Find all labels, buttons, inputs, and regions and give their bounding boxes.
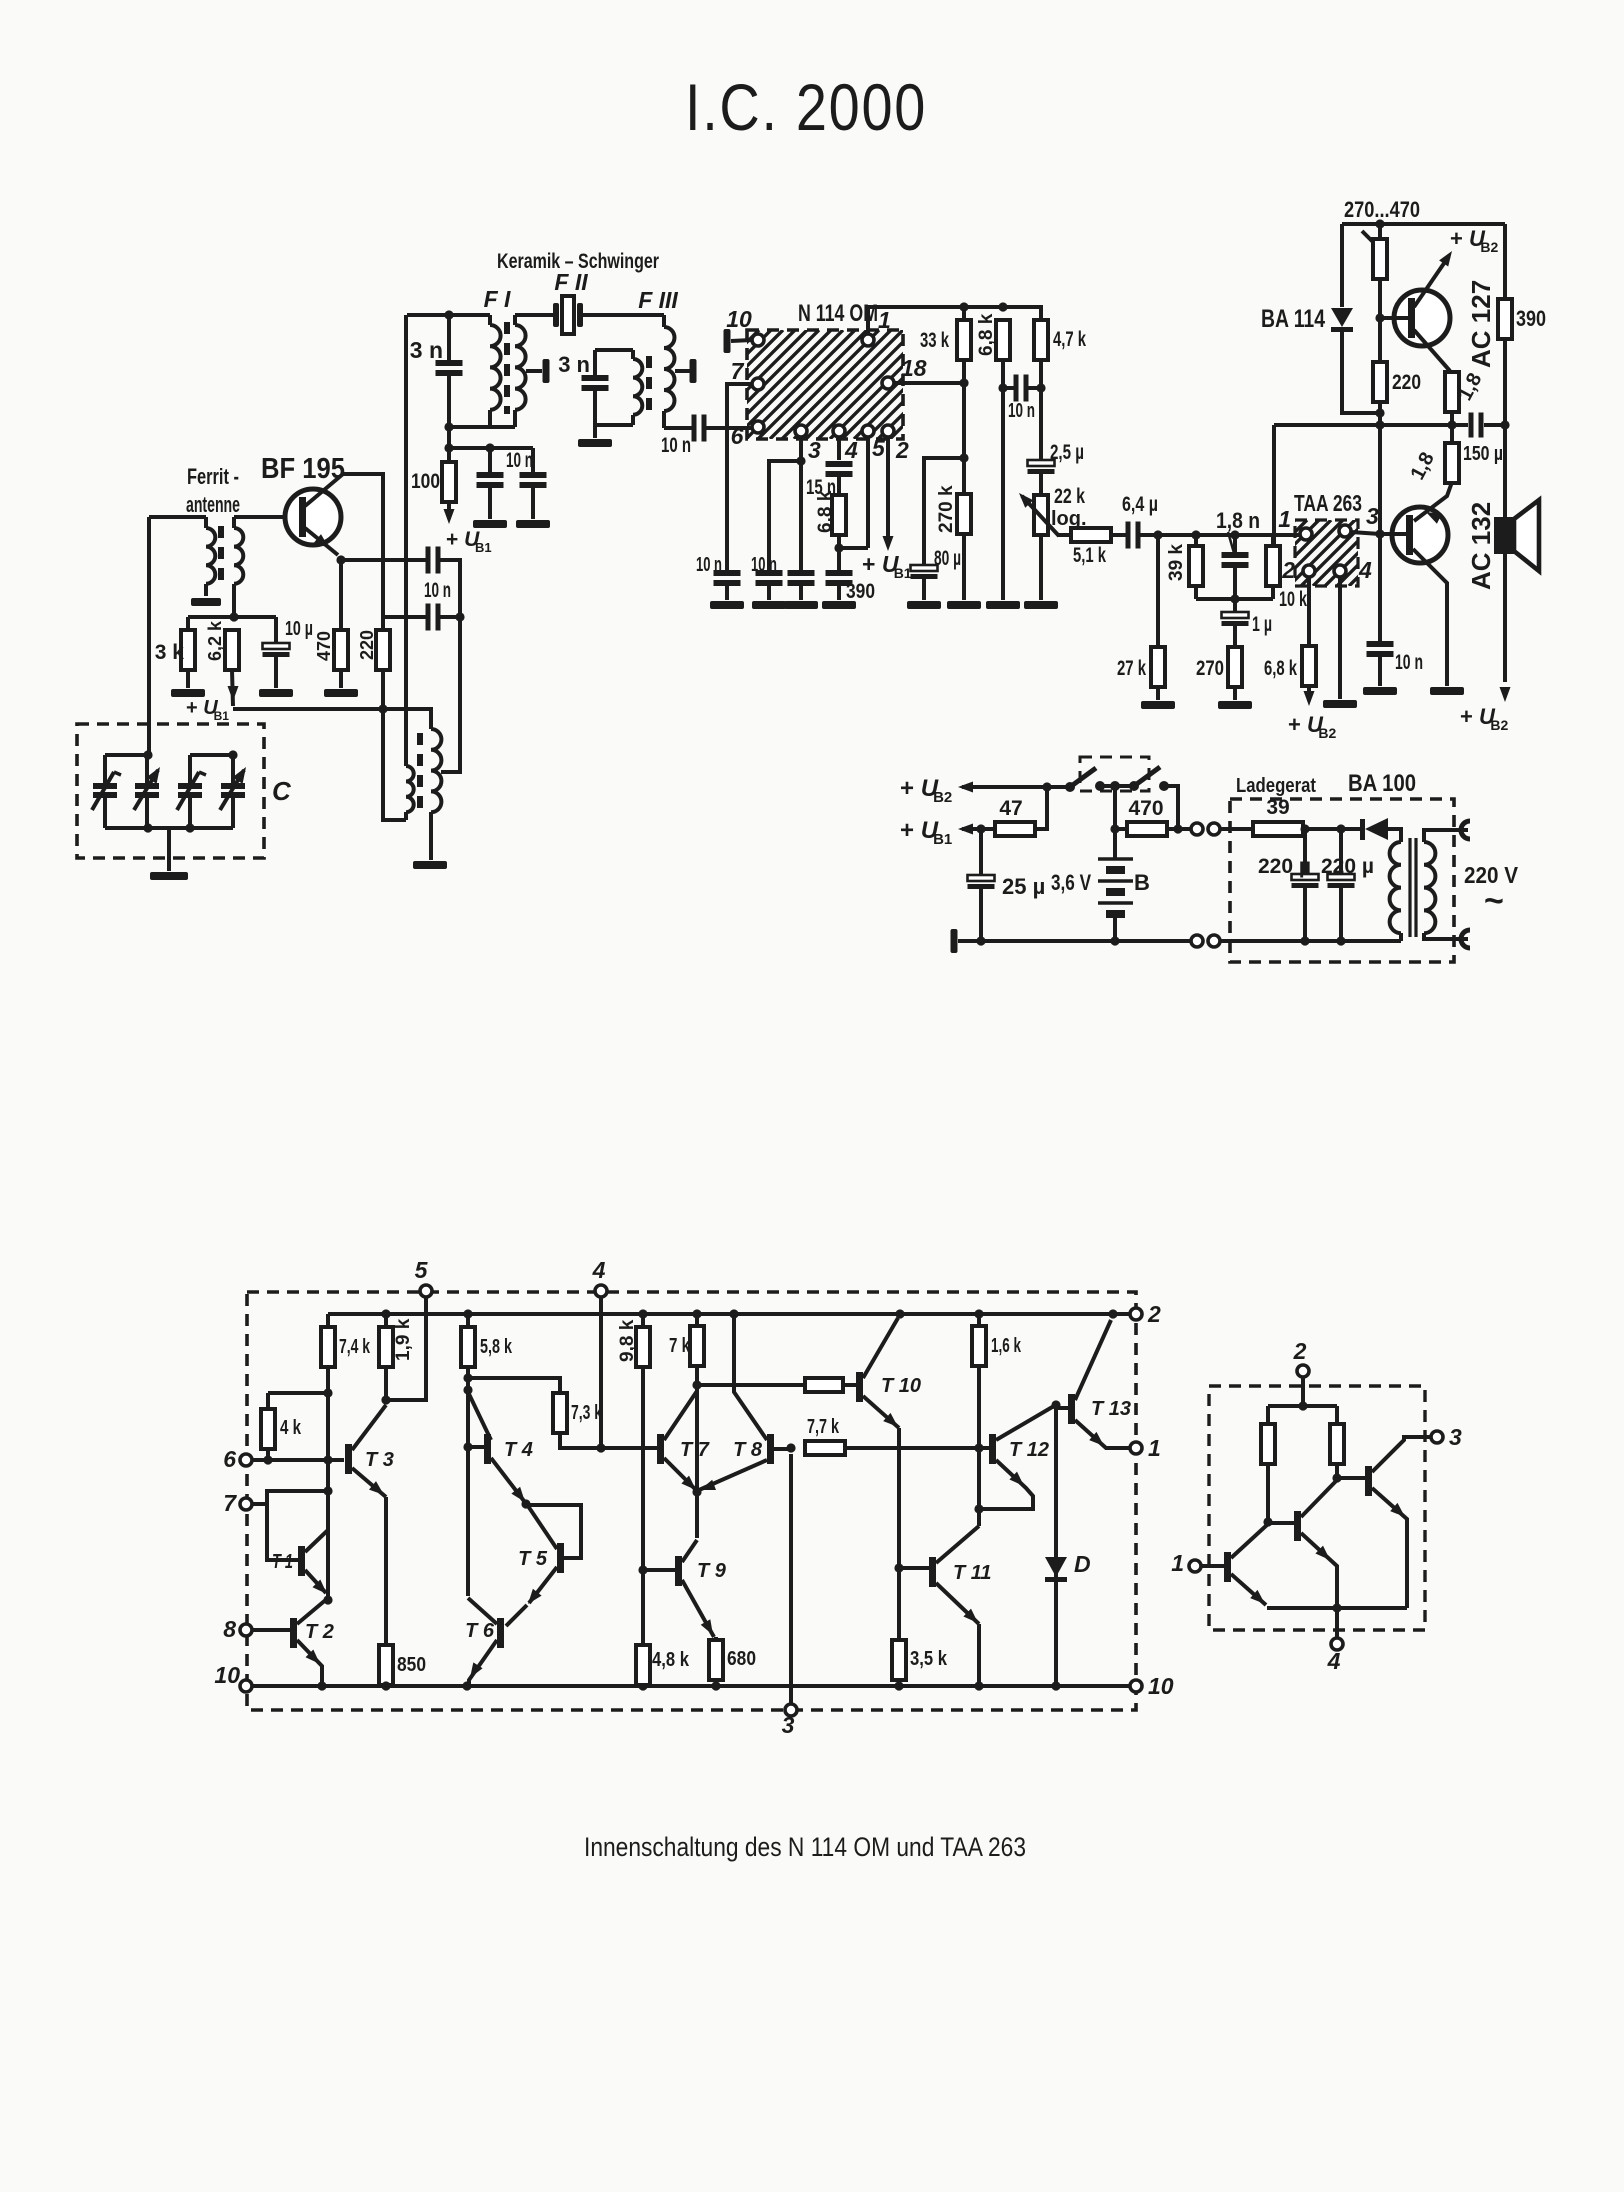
wire BF195 collector run bbox=[343, 474, 383, 630]
svg-text:1: 1 bbox=[878, 307, 891, 333]
filter FIII secondary coil bbox=[664, 315, 675, 428]
capacitor 10n gndA bbox=[696, 554, 741, 600]
TAA int resistor left bbox=[1261, 1406, 1275, 1527]
filter FIII primary coil bbox=[633, 350, 642, 425]
TAA int pin 1 bbox=[1171, 1550, 1224, 1576]
svg-text:D: D bbox=[1074, 1551, 1091, 1577]
FIII core dashed bbox=[646, 356, 652, 412]
label AC 132 bbox=[1466, 502, 1496, 590]
label +UB1 under 100 bbox=[446, 528, 492, 555]
transistor T2 bbox=[290, 1595, 334, 1686]
charger dashed box Ladegeraet BA100 bbox=[1230, 770, 1454, 962]
pin 1 bbox=[862, 307, 891, 346]
terminal circles bottom bbox=[1191, 935, 1220, 947]
capacitor 220u b bbox=[1321, 829, 1374, 946]
node FI to 100 bbox=[444, 427, 533, 453]
svg-text:2: 2 bbox=[895, 437, 909, 463]
label 270...470 bbox=[1344, 197, 1420, 222]
wire BF195 emitter run bbox=[336, 555, 427, 564]
title I.C. 2000 bbox=[685, 70, 927, 144]
svg-text:27 k: 27 k bbox=[1117, 657, 1146, 680]
TAA int transistor A bbox=[1224, 1524, 1268, 1605]
svg-text:Innenschaltung des N 114 OM un: Innenschaltung des N 114 OM und TAA 263 bbox=[584, 1832, 1026, 1862]
ground under 10u bbox=[259, 689, 293, 697]
svg-text:3 k: 3 k bbox=[155, 641, 185, 664]
osc transformer right coil bbox=[431, 729, 441, 860]
svg-text:10: 10 bbox=[214, 1662, 240, 1688]
svg-text:100: 100 bbox=[411, 470, 440, 493]
IC internals dashed box bbox=[247, 1292, 1136, 1710]
resistor 6.8k TAA bbox=[1264, 646, 1316, 706]
transistor T11 bbox=[899, 1526, 992, 1686]
resistor 7.3k bbox=[553, 1393, 657, 1448]
label N 114 OM bbox=[798, 300, 878, 327]
capacitor 15n bbox=[806, 461, 853, 499]
svg-text:220 µ: 220 µ bbox=[1321, 855, 1374, 878]
svg-text:6,4 µ: 6,4 µ bbox=[1122, 493, 1158, 516]
TAA int transistor C bbox=[1337, 1437, 1431, 1608]
wire T4 chain bbox=[463, 1378, 472, 1596]
resistor 220 bbox=[357, 630, 390, 670]
svg-text:470: 470 bbox=[1128, 797, 1163, 820]
svg-text:T 12: T 12 bbox=[1009, 1439, 1049, 1461]
capacitor 1u bbox=[1222, 599, 1273, 647]
svg-text:T 8: T 8 bbox=[733, 1439, 763, 1461]
svg-text:270: 270 bbox=[1196, 657, 1224, 680]
svg-text:3,5 k: 3,5 k bbox=[910, 1648, 948, 1670]
svg-text:3 n: 3 n bbox=[558, 352, 590, 377]
capacitor 10n FI-b bbox=[520, 448, 547, 519]
wire top resistor bus bbox=[868, 302, 1041, 320]
svg-text:3: 3 bbox=[1366, 503, 1379, 529]
TAA pin 3 bbox=[1339, 503, 1380, 537]
svg-text:5,8 k: 5,8 k bbox=[480, 1336, 513, 1358]
wire FI feedback vertical bbox=[404, 315, 408, 766]
svg-text:4: 4 bbox=[1327, 1648, 1341, 1674]
resistor 270 bbox=[1196, 647, 1242, 700]
svg-text:5: 5 bbox=[872, 435, 886, 461]
svg-text:6: 6 bbox=[731, 423, 744, 449]
wire AC132 base node bbox=[1375, 425, 1384, 643]
svg-text:T 10: T 10 bbox=[881, 1375, 921, 1397]
transistor T1 bbox=[272, 1530, 328, 1594]
resistor 33k bbox=[920, 307, 971, 494]
TAA int transistor B bbox=[1268, 1480, 1337, 1608]
pin 10 left bbox=[214, 1662, 252, 1692]
svg-text:25 µ: 25 µ bbox=[1002, 874, 1045, 899]
svg-text:80 µ: 80 µ bbox=[934, 547, 961, 570]
svg-text:10 µ: 10 µ bbox=[285, 618, 313, 640]
node fb bus bbox=[1196, 594, 1273, 603]
wire antenna left leg down to C box bbox=[147, 517, 151, 755]
svg-text:390: 390 bbox=[1516, 306, 1546, 331]
TAA pin 4 bbox=[1334, 557, 1372, 699]
resistor 850 bbox=[379, 1645, 426, 1689]
svg-text:680: 680 bbox=[727, 1648, 756, 1670]
IC N114OM hatched box bbox=[638, 330, 1011, 439]
wire after cap A bbox=[439, 560, 460, 617]
svg-text:Ferrit -: Ferrit - bbox=[187, 464, 239, 489]
resistor 10k bbox=[1266, 534, 1307, 611]
resistor 5.1k bbox=[1071, 528, 1111, 567]
svg-text:1: 1 bbox=[1278, 506, 1291, 532]
svg-text:~: ~ bbox=[1484, 882, 1504, 920]
label +UB2 arrow bbox=[900, 775, 1052, 806]
svg-text:B2: B2 bbox=[1490, 717, 1508, 733]
svg-text:4: 4 bbox=[592, 1257, 606, 1283]
wire 3n top link bbox=[595, 348, 633, 352]
resistor 7.7k bbox=[805, 1416, 989, 1455]
svg-text:6,2 k: 6,2 k bbox=[205, 620, 225, 661]
TAA int pin 4 bbox=[1327, 1608, 1343, 1674]
transistor T5 bbox=[518, 1505, 581, 1604]
variable capacitor C3 bbox=[177, 755, 206, 828]
wire internal top bus bbox=[328, 1309, 1130, 1318]
ground C box bbox=[150, 872, 188, 880]
svg-text:850: 850 bbox=[397, 1654, 426, 1676]
resistor 6.8k top bbox=[976, 313, 1010, 600]
svg-text:10 n: 10 n bbox=[1395, 651, 1423, 674]
filter FI secondary coil bbox=[515, 315, 526, 427]
ground 27k bbox=[1141, 701, 1175, 709]
potentiometer 22k log bbox=[1019, 485, 1087, 600]
svg-text:1 µ: 1 µ bbox=[1252, 613, 1272, 636]
resistor 1.8 upper bbox=[1445, 369, 1486, 412]
ground 10n out bbox=[1363, 687, 1397, 695]
svg-text:1: 1 bbox=[1171, 1550, 1184, 1576]
svg-text:10 n: 10 n bbox=[506, 449, 533, 472]
wire cap B to tap bbox=[439, 612, 465, 772]
svg-text:7 k: 7 k bbox=[669, 1335, 691, 1357]
pin 8 left bbox=[223, 1616, 290, 1642]
wire top bus FI bbox=[407, 310, 490, 319]
capacitor 10n gndB bbox=[751, 554, 783, 600]
svg-text:B: B bbox=[1134, 870, 1150, 895]
TAA int pin 2 bbox=[1293, 1338, 1309, 1406]
pin 2 bbox=[882, 425, 909, 551]
svg-text:220 µ: 220 µ bbox=[1258, 855, 1311, 878]
svg-text:F III: F III bbox=[638, 287, 678, 313]
capacitor 10n series B bbox=[426, 604, 441, 631]
wire FII to FIII bbox=[583, 313, 664, 317]
svg-text:18: 18 bbox=[901, 355, 927, 381]
transistor T12 bbox=[981, 1406, 1054, 1509]
wire pin3 jog bbox=[769, 456, 806, 572]
ground capA bbox=[710, 601, 744, 609]
wire 6.2k to UB1 bus with arrow bbox=[228, 670, 239, 706]
resistor 3.5k bbox=[892, 1640, 948, 1689]
svg-text:150 µ: 150 µ bbox=[1463, 443, 1503, 465]
capacitor 25u bbox=[968, 829, 1046, 946]
wire top supply bus bbox=[1342, 219, 1505, 228]
pin 7 detour wire bbox=[727, 384, 752, 570]
TAA int pin 3 bbox=[1431, 1424, 1462, 1450]
resistor 220 output bbox=[1373, 362, 1421, 425]
svg-text:10 n: 10 n bbox=[751, 554, 777, 576]
svg-text:47: 47 bbox=[999, 797, 1022, 820]
svg-text:T 13: T 13 bbox=[1091, 1398, 1131, 1420]
pin 3 bottom bbox=[782, 1454, 797, 1738]
pin 2 right bbox=[1130, 1301, 1161, 1327]
variable capacitor C4 bbox=[220, 755, 246, 828]
resistor 39k bbox=[1166, 535, 1203, 599]
pin 7 left bbox=[223, 1490, 328, 1516]
label +UB1 pin2 bbox=[862, 551, 912, 581]
svg-text:B2: B2 bbox=[933, 789, 952, 806]
pin 4 bbox=[833, 425, 858, 463]
capacitor 10u bbox=[263, 617, 314, 688]
ground under 470 bbox=[324, 689, 358, 697]
osc core dashed bbox=[417, 733, 423, 812]
label Ferrit-antenne bbox=[186, 464, 240, 517]
wire into pin 6 bbox=[705, 426, 752, 430]
svg-text:7,7 k: 7,7 k bbox=[807, 1416, 840, 1438]
ground capB bbox=[752, 601, 786, 609]
wire FIII bottom link bbox=[595, 425, 633, 438]
wire internal bottom bus bbox=[252, 1681, 1130, 1690]
resistor 6.8k pin4 bbox=[815, 490, 868, 552]
capacitor 3n FIII bbox=[558, 350, 608, 425]
wire T10 base line bbox=[697, 1383, 805, 1387]
capacitor 390 bbox=[826, 548, 876, 603]
caption Innenschaltung bbox=[584, 1832, 1026, 1862]
capacitor 150u bbox=[1452, 413, 1510, 466]
resistor 5.8k bbox=[461, 1314, 513, 1383]
svg-text:T 4: T 4 bbox=[504, 1439, 533, 1461]
osc transformer left coil bbox=[406, 766, 414, 820]
ground under osc transformer bbox=[413, 861, 447, 869]
svg-text:3: 3 bbox=[782, 1712, 795, 1738]
label TAA 263 bbox=[1294, 490, 1362, 516]
svg-text:T 3: T 3 bbox=[365, 1449, 394, 1471]
TAA internals dashed box bbox=[1209, 1386, 1425, 1630]
capacitor 10n out bbox=[1367, 641, 1424, 686]
switch S2 bbox=[1110, 767, 1178, 829]
filter FI primary coil bbox=[490, 315, 501, 427]
capacitor 6.4u bbox=[1122, 493, 1158, 549]
resistor 1.9k bbox=[379, 1314, 414, 1405]
svg-text:390: 390 bbox=[846, 580, 875, 603]
svg-text:4 k: 4 k bbox=[280, 1417, 302, 1439]
transistor T4 bbox=[468, 1392, 533, 1502]
wire C box top pair 1 bbox=[105, 750, 153, 759]
svg-text:10 n: 10 n bbox=[696, 554, 722, 576]
svg-text:22 k: 22 k bbox=[1054, 485, 1085, 508]
capacitor 10n gndC bbox=[788, 461, 815, 600]
svg-text:10 n: 10 n bbox=[1008, 400, 1035, 422]
pin 10 right bbox=[1130, 1673, 1174, 1699]
svg-text:7: 7 bbox=[223, 1490, 237, 1516]
svg-text:10: 10 bbox=[1148, 1673, 1174, 1699]
svg-text:I.C. 2000: I.C. 2000 bbox=[685, 70, 927, 144]
mains hooks 220V bbox=[1461, 821, 1519, 948]
svg-text:B1: B1 bbox=[894, 565, 912, 581]
svg-text:8: 8 bbox=[223, 1616, 236, 1642]
svg-text:BA 100: BA 100 bbox=[1348, 770, 1416, 797]
resistor 9.8k bbox=[617, 1314, 650, 1645]
terminal circles top bbox=[1191, 823, 1220, 835]
wire T7 collector chain bbox=[692, 1385, 701, 1538]
svg-text:39 k: 39 k bbox=[1166, 544, 1187, 581]
svg-text:B2: B2 bbox=[1318, 725, 1336, 741]
label F III bbox=[638, 287, 678, 313]
label +UB1 left bbox=[186, 697, 229, 723]
wire audio line to TAA bbox=[1139, 530, 1300, 539]
label +UB1 arrow bbox=[900, 817, 995, 848]
svg-text:AC 132: AC 132 bbox=[1466, 502, 1496, 590]
svg-text:1,6 k: 1,6 k bbox=[991, 1335, 1022, 1357]
transistor AC127 bbox=[1380, 251, 1452, 371]
resistor base T10 bbox=[805, 1378, 856, 1392]
wire to node bbox=[1450, 412, 1454, 425]
speaker bbox=[1494, 425, 1539, 702]
transistor AC132 bbox=[1380, 482, 1452, 686]
ground capD bbox=[822, 601, 856, 609]
label F I bbox=[484, 286, 511, 312]
resistor 390 bbox=[1498, 224, 1546, 425]
FI core dashed bbox=[504, 322, 510, 414]
svg-text:AC 127: AC 127 bbox=[1466, 280, 1496, 368]
switch dashed box bbox=[1080, 757, 1149, 791]
capacitor 10n bridge bbox=[998, 375, 1045, 423]
resistor 7k bbox=[669, 1314, 704, 1390]
ground FI-a bbox=[473, 520, 507, 528]
svg-text:1,8 n: 1,8 n bbox=[1216, 508, 1260, 533]
wire 5.1k to cap bbox=[1111, 533, 1126, 537]
resistor 1.6k bbox=[972, 1314, 1022, 1526]
wire FI to FII bbox=[515, 313, 553, 317]
label AC 127 bbox=[1466, 280, 1496, 368]
svg-text:220: 220 bbox=[357, 630, 377, 660]
svg-text:2,5 µ: 2,5 µ bbox=[1050, 441, 1084, 464]
pin 4 top bbox=[592, 1257, 607, 1453]
wire pin7 to T1 base bbox=[267, 1504, 298, 1560]
svg-text:6,8 k: 6,8 k bbox=[815, 490, 836, 533]
svg-text:270...470: 270...470 bbox=[1344, 197, 1420, 222]
wire C box bottom bus bbox=[105, 823, 233, 832]
FIII tap bar bbox=[675, 359, 697, 383]
wire UB1 bus bbox=[233, 704, 431, 729]
svg-text:7,4 k: 7,4 k bbox=[339, 1336, 371, 1358]
pin 7 bbox=[731, 358, 764, 390]
variable resistor 270-470 bbox=[1362, 224, 1387, 362]
svg-text:T 9: T 9 bbox=[697, 1560, 727, 1582]
svg-text:7: 7 bbox=[731, 358, 745, 384]
resistor 3k bbox=[155, 617, 195, 688]
svg-text:220: 220 bbox=[1392, 371, 1421, 394]
svg-text:B1: B1 bbox=[475, 540, 492, 555]
svg-text:10 n: 10 n bbox=[424, 579, 451, 602]
svg-text:10: 10 bbox=[726, 306, 752, 332]
wire C box ground stub bbox=[167, 828, 171, 871]
resistor 39 bbox=[1220, 796, 1360, 836]
label 10n FI caps bbox=[506, 449, 533, 472]
svg-text:39: 39 bbox=[1266, 796, 1289, 819]
wire T5 to T6 bbox=[506, 1605, 527, 1626]
node bias bus bbox=[188, 612, 276, 621]
wire TAA int top bus bbox=[1268, 1401, 1337, 1410]
label +UB2 top bbox=[1450, 226, 1499, 255]
diode charger bbox=[1360, 818, 1401, 842]
TAA int resistor right bbox=[1330, 1406, 1344, 1483]
wire 220 bottom to bus and osc coil bbox=[383, 670, 406, 820]
capacitor 3n FI bbox=[410, 315, 463, 427]
svg-text:3,6 V: 3,6 V bbox=[1051, 870, 1091, 895]
svg-text:T 6: T 6 bbox=[465, 1620, 495, 1642]
chassis bar bbox=[951, 929, 1192, 953]
TAA pin 1 bbox=[1278, 506, 1312, 540]
svg-text:2: 2 bbox=[1293, 1338, 1307, 1364]
label Keramik-Schwinger bbox=[497, 250, 659, 273]
svg-text:4,7 k: 4,7 k bbox=[1053, 328, 1086, 351]
svg-text:2: 2 bbox=[1147, 1301, 1161, 1327]
svg-text:T 2: T 2 bbox=[305, 1621, 334, 1643]
ground 80u bbox=[907, 601, 941, 609]
wire TAA int bottom bus bbox=[1267, 1603, 1407, 1612]
svg-text:TAA 263: TAA 263 bbox=[1294, 490, 1362, 516]
resistor 4.8k bbox=[636, 1645, 690, 1685]
svg-text:470: 470 bbox=[314, 631, 334, 661]
node T4 T5 bbox=[521, 1499, 530, 1508]
pin 6 bbox=[731, 421, 764, 449]
transistor T13 bbox=[1056, 1320, 1131, 1448]
wire T10 emitter down bbox=[894, 1428, 903, 1640]
wire T3 emitter to 850 bbox=[384, 1497, 388, 1645]
ground AC132 emitter bbox=[1430, 687, 1464, 695]
IC TAA263 hatched box bbox=[1229, 520, 1415, 586]
svg-text:antenne: antenne bbox=[186, 492, 240, 517]
transistor T8 bbox=[699, 1314, 796, 1490]
ground 22k bbox=[1024, 601, 1058, 609]
variable capacitor C2 bbox=[134, 755, 160, 828]
transistor T3 bbox=[345, 1405, 394, 1497]
wire cap line B bbox=[384, 615, 427, 619]
pin 10 terminal bbox=[724, 306, 765, 353]
svg-text:T 1: T 1 bbox=[272, 1551, 293, 1573]
capacitor 10n series A bbox=[426, 547, 441, 574]
ground 6.8k bbox=[986, 601, 1020, 609]
svg-text:B1: B1 bbox=[214, 709, 230, 723]
svg-text:BA 114: BA 114 bbox=[1261, 305, 1325, 333]
capacitor 10n FI-a bbox=[477, 448, 504, 519]
battery 3.6V B bbox=[1051, 786, 1150, 946]
svg-text:3 n: 3 n bbox=[410, 337, 443, 363]
ground capC bbox=[784, 601, 818, 609]
svg-text:6,8 k: 6,8 k bbox=[976, 313, 997, 356]
resistor 680 bbox=[709, 1637, 756, 1689]
svg-text:4: 4 bbox=[844, 437, 858, 463]
switch S1 bbox=[1047, 768, 1134, 792]
transistor T10 bbox=[856, 1318, 921, 1428]
resonator F II bbox=[553, 269, 588, 334]
transistor T6 bbox=[465, 1598, 504, 1686]
svg-text:5,1 k: 5,1 k bbox=[1073, 544, 1106, 567]
resistor 6.2k bbox=[205, 620, 239, 670]
svg-text:1,9 k: 1,9 k bbox=[393, 1318, 414, 1361]
transistor T9 bbox=[643, 1540, 727, 1637]
wire FI bottom bbox=[444, 422, 515, 431]
svg-text:3: 3 bbox=[808, 437, 821, 463]
svg-text:270 k: 270 k bbox=[936, 485, 957, 533]
ground under 3k bbox=[171, 689, 205, 697]
ground 270k bbox=[947, 601, 981, 609]
label 10 n bbox=[424, 579, 451, 602]
svg-text:4,8 k: 4,8 k bbox=[652, 1649, 690, 1671]
svg-text:9,8 k: 9,8 k bbox=[617, 1319, 638, 1362]
label +UB2 TAA bbox=[1288, 712, 1337, 741]
svg-text:Ladegerat: Ladegerat bbox=[1236, 775, 1316, 797]
svg-text:BF 195: BF 195 bbox=[261, 453, 345, 485]
